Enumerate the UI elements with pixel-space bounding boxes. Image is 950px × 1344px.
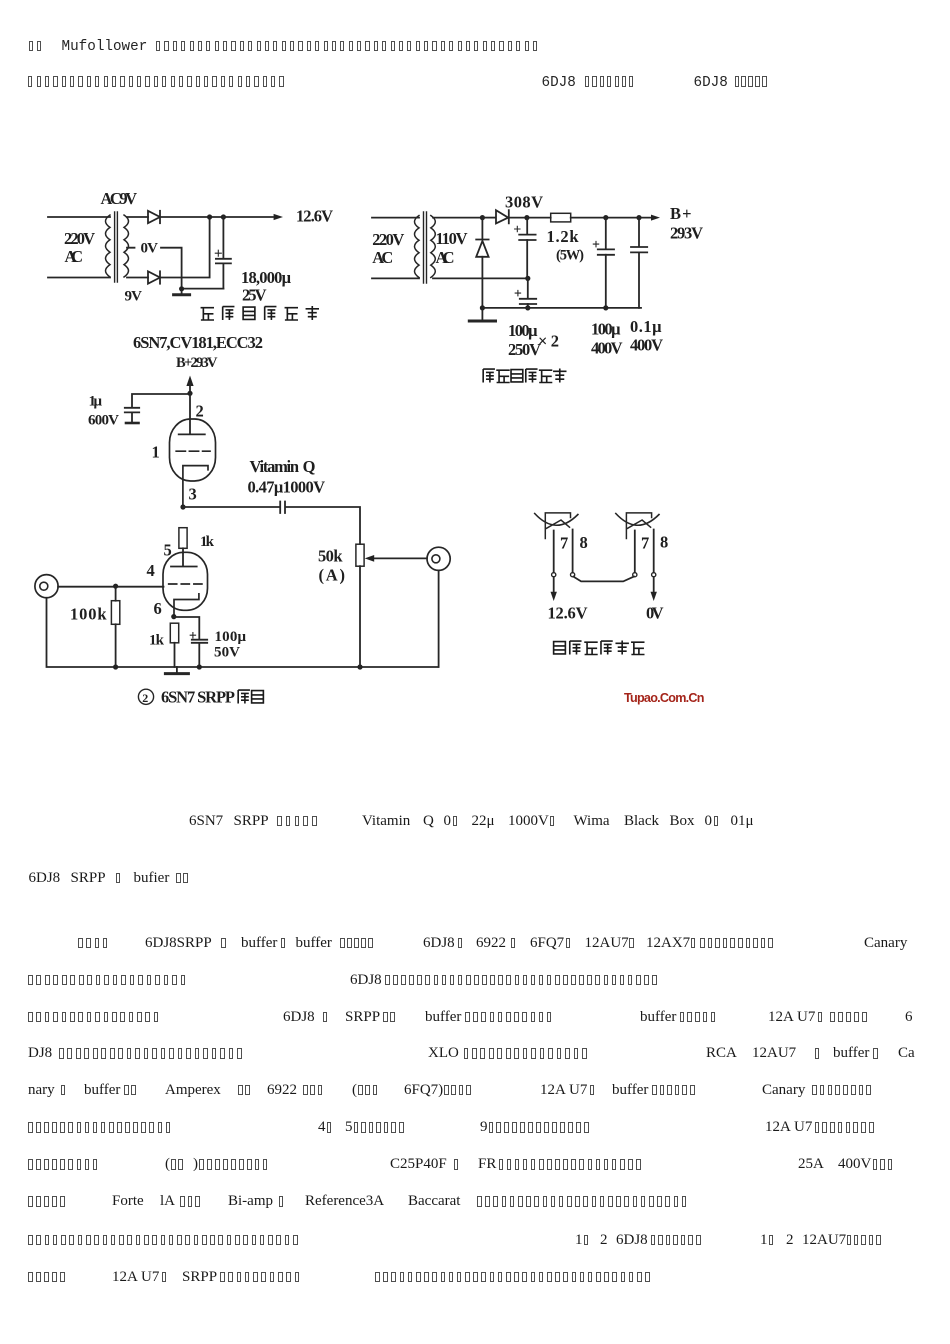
svg-text:12.6V: 12.6V [548,604,588,623]
svg-text:12.6V: 12.6V [296,207,333,226]
svg-text:0V: 0V [646,604,664,623]
svg-text:600V: 600V [88,413,119,429]
svg-text:Tupao.Com.Cn: Tupao.Com.Cn [624,691,705,705]
svg-text:AC: AC [65,247,84,266]
svg-text:1: 1 [152,443,160,462]
svg-text:2: 2 [196,402,204,421]
svg-text:8: 8 [580,533,588,552]
svg-text:5: 5 [164,541,172,560]
svg-text:7: 7 [641,534,649,553]
svg-text:7: 7 [560,534,568,553]
svg-text:8: 8 [660,533,668,552]
svg-text:1k: 1k [149,633,165,649]
svg-text:AC: AC [372,248,393,267]
svg-text:220V: 220V [372,230,404,249]
svg-text:400V: 400V [591,339,623,358]
svg-text:Vitamin Q: Vitamin Q [250,457,316,476]
svg-text:9V: 9V [125,289,143,305]
svg-text:6SN7 SRPP: 6SN7 SRPP [161,688,235,707]
svg-text:1μ: 1μ [89,394,103,410]
svg-text:50k: 50k [318,547,343,566]
svg-text:3: 3 [189,485,197,504]
svg-text:293V: 293V [670,224,703,243]
svg-text:AC: AC [436,248,455,267]
svg-text:1.2k: 1.2k [547,227,580,246]
svg-text:1k: 1k [200,534,215,550]
svg-text:(A): (A) [319,566,346,585]
svg-text:50V: 50V [214,645,240,661]
svg-text:100μ: 100μ [215,629,247,645]
svg-text:250V: 250V [508,340,541,359]
svg-text:400V: 400V [630,336,663,355]
svg-text:0.47μ1000V: 0.47μ1000V [248,478,326,497]
svg-text:0V: 0V [141,241,159,257]
svg-text:100k: 100k [70,605,107,624]
svg-text:6SN7,CV181,ECC32: 6SN7,CV181,ECC32 [133,333,263,352]
svg-text:100μ: 100μ [508,321,538,340]
svg-text:0.1μ: 0.1μ [630,317,662,336]
svg-text:220V: 220V [64,229,95,248]
svg-text:AC9V: AC9V [101,189,138,208]
svg-text:100μ: 100μ [591,320,621,339]
svg-text:×2: ×2 [538,332,559,351]
svg-text:2: 2 [142,691,148,705]
svg-text:308V: 308V [505,193,543,212]
svg-text:110V: 110V [436,229,468,248]
svg-text:6: 6 [154,599,162,618]
svg-text:18,000μ: 18,000μ [241,268,292,287]
svg-text:25V: 25V [242,286,267,305]
svg-text:(5W): (5W) [556,248,584,264]
svg-text:B+: B+ [670,204,692,223]
svg-text:4: 4 [147,561,155,580]
svg-text:B+293V: B+293V [176,355,218,371]
